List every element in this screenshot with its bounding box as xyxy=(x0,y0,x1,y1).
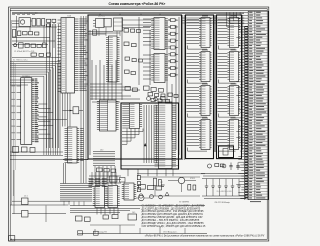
svg-text:D8 ВВ55: D8 ВВ55 xyxy=(22,76,30,78)
svg-text:D2.1: D2.1 xyxy=(24,196,28,198)
svg-text:D45: D45 xyxy=(132,212,135,214)
svg-text:С49: С49 xyxy=(243,164,246,166)
svg-text:20,0×16В 20,0×16В: 20,0×16В 20,0×16В xyxy=(216,190,232,193)
svg-text:VT1 КТ315Б D1 ЛА7: VT1 КТ315Б D1 ЛА7 xyxy=(20,11,38,14)
svg-text:A: A xyxy=(10,237,12,241)
svg-text:ООО Вход магн.: ООО Вход магн. xyxy=(163,231,178,233)
svg-text:Выход ТВ: Выход ТВ xyxy=(98,231,107,233)
svg-text:«Робот-86 РК» | Зв (условные о: «Робот-86 РК» | Зв (условные обозначения… xyxy=(145,234,265,237)
svg-text:Кл. ТМ2 СС СИ-1: Кл. ТМ2 СС СИ-1 xyxy=(13,59,27,61)
svg-text:СМ-2УЗ 8000мкф: СМ-2УЗ 8000мкф xyxy=(214,201,230,204)
svg-text:С47: С47 xyxy=(160,182,163,184)
svg-text:КТ815: КТ815 xyxy=(190,178,195,180)
svg-text:ST GEEPM: ST GEEPM xyxy=(179,202,189,204)
svg-text:D30 ВГ75: D30 ВГ75 xyxy=(161,100,169,102)
svg-text:ОЗУ КР565РУ2А-Д5 ; 455ИП5 Д37-: ОЗУ КР565РУ2А-Д5 ; 455ИП5 Д37-Д39 2ИЛИ К… xyxy=(142,225,206,228)
svg-text:D10 D11: D10 D11 xyxy=(98,16,105,18)
svg-text:Схема компьютера «Робот-86 РК»: Схема компьютера «Робот-86 РК» xyxy=(109,2,166,6)
svg-text:C1 470х6,3В R7 1к ZQ1: C1 470х6,3В R7 1к ZQ1 xyxy=(14,51,34,53)
svg-text:D40: D40 xyxy=(100,150,103,152)
